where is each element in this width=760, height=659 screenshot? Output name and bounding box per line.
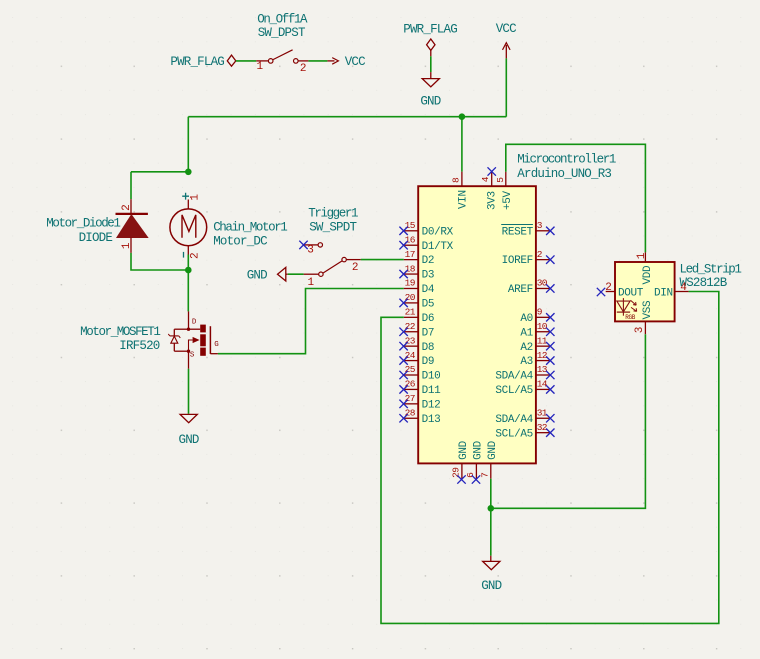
pin 4 DIN — [654, 282, 689, 299]
no-connect pin 30 — [546, 284, 554, 292]
svg-text:GND: GND — [458, 440, 470, 460]
svg-text:A2: A2 — [520, 342, 533, 354]
svg-text:23: 23 — [405, 335, 416, 346]
wire GND node down — [490, 508, 492, 555]
svg-text:D10: D10 — [422, 371, 441, 383]
svg-text:D12: D12 — [422, 399, 441, 411]
pin 30 AREF — [508, 278, 550, 296]
wire +5V to LED VDD — [506, 144, 646, 252]
no-connect pin 29 — [457, 475, 465, 483]
svg-text:GND: GND — [420, 95, 440, 109]
pin 11 A2 — [520, 335, 550, 353]
power flag PWR_FLAG (top) — [403, 23, 457, 57]
svg-text:14: 14 — [537, 379, 548, 390]
svg-text:GND: GND — [487, 440, 499, 460]
svg-text:25: 25 — [405, 364, 416, 375]
svg-text:30: 30 — [537, 278, 548, 289]
svg-text:D5: D5 — [422, 299, 435, 311]
svg-text:2: 2 — [537, 249, 543, 260]
pin 4 3V3 — [480, 172, 498, 210]
svg-text:3V3: 3V3 — [486, 191, 498, 210]
svg-text:2: 2 — [300, 63, 306, 75]
ground GND (bottom) — [481, 556, 501, 593]
svg-text:4: 4 — [680, 282, 687, 294]
svg-text:Trigger1: Trigger1 — [308, 207, 358, 221]
svg-text:3: 3 — [307, 245, 313, 257]
ground GND (MOSFET source) — [179, 414, 199, 446]
switch Trigger1 SW_SPDT — [304, 207, 361, 289]
pin 3 RESET — [501, 220, 550, 238]
svg-text:RGB: RGB — [625, 314, 636, 321]
pin 26 D11 — [404, 379, 441, 397]
svg-text:1: 1 — [256, 61, 263, 73]
pin 24 D9 — [404, 350, 434, 368]
no-connect pin 10 — [546, 328, 554, 336]
wire diode bottom to motor bottom node — [131, 253, 188, 270]
no-connect pin 4 — [488, 167, 496, 175]
no-connect pin 15 — [399, 227, 407, 235]
pin 1 VDD — [636, 252, 654, 284]
svg-text:3: 3 — [634, 327, 646, 333]
svg-text:GND: GND — [179, 433, 199, 447]
wire PWR_FLAG to GND — [430, 56, 432, 72]
svg-text:16: 16 — [405, 234, 416, 245]
pin 3 VSS — [634, 300, 654, 334]
svg-text:On_Off1A: On_Off1A — [257, 13, 308, 27]
svg-text:24: 24 — [405, 350, 416, 361]
svg-text:Motor_DC: Motor_DC — [213, 235, 267, 249]
svg-text:GND: GND — [481, 579, 501, 593]
svg-text:5: 5 — [495, 177, 506, 183]
wire D6 to LED DIN — [381, 292, 719, 624]
svg-text:1: 1 — [121, 242, 133, 249]
transistor Motor_MOSFET1 IRF520 — [80, 311, 219, 359]
switch On_Off1A SW_DPST — [256, 13, 308, 76]
svg-text:PWR_FLAG: PWR_FLAG — [170, 55, 224, 69]
svg-text:29: 29 — [451, 467, 462, 478]
wire node to MOSFET drain — [187, 270, 189, 311]
svg-text:IRF520: IRF520 — [119, 339, 160, 353]
no-connect pin 31 — [546, 414, 554, 422]
no-connect trigger pin 3 — [299, 241, 307, 249]
svg-text:D2: D2 — [422, 255, 435, 267]
svg-text:GND: GND — [247, 269, 267, 283]
svg-text:SDA/A4: SDA/A4 — [495, 414, 533, 426]
pin 14 SCL/A5 — [495, 379, 550, 397]
svg-text:1: 1 — [636, 252, 648, 259]
svg-text:A3: A3 — [520, 356, 533, 368]
ground GND (top) — [420, 72, 440, 109]
junction motor bottom node — [185, 267, 192, 274]
pin 31 SDA/A4 — [495, 407, 550, 425]
svg-text:26: 26 — [405, 379, 416, 390]
wire motor minus to node — [187, 255, 189, 271]
svg-text:11: 11 — [537, 335, 548, 346]
svg-text:SCL/A5: SCL/A5 — [495, 385, 533, 397]
svg-text:15: 15 — [405, 220, 416, 231]
pin 6 GND — [465, 440, 485, 478]
svg-text:Microcontroller1: Microcontroller1 — [517, 153, 616, 167]
no-connect pin 20 — [399, 299, 407, 307]
svg-text:18: 18 — [405, 263, 416, 274]
svg-text:1: 1 — [307, 277, 314, 289]
pin 22 D7 — [404, 321, 434, 339]
svg-text:+5V: +5V — [502, 190, 514, 210]
svg-text:1: 1 — [190, 194, 202, 201]
pin 9 A0 — [520, 307, 550, 325]
svg-text:21: 21 — [405, 307, 416, 318]
pin 8 VIN — [451, 172, 470, 209]
ground GND (trigger) — [247, 267, 288, 282]
svg-text:VCC: VCC — [345, 55, 365, 69]
svg-text:10: 10 — [537, 321, 548, 332]
ground triangle — [180, 414, 197, 422]
LED strip U2 Led_Strip1 WS2812B — [615, 262, 741, 321]
internal RGB LED glyph — [617, 301, 630, 312]
pin 23 D8 — [404, 335, 434, 353]
svg-text:D4: D4 — [422, 284, 435, 296]
svg-text:SW_SPDT: SW_SPDT — [309, 220, 357, 234]
pin 1 (+) — [182, 193, 189, 200]
svg-text:28: 28 — [405, 407, 416, 418]
svg-text:19: 19 — [405, 278, 416, 289]
no-connect pin 32 — [546, 428, 554, 436]
wire GND to trigger pin 1 — [288, 273, 304, 275]
svg-text:2: 2 — [605, 282, 611, 294]
no-connect pin 11 — [546, 342, 554, 350]
no-connect pin 16 — [399, 241, 407, 249]
pin 2 (-) — [183, 252, 185, 258]
svg-text:D13: D13 — [422, 414, 441, 426]
wire D4 to MOSFET gate — [218, 289, 404, 354]
svg-text:PWR_FLAG: PWR_FLAG — [403, 23, 457, 37]
svg-text:D0/RX: D0/RX — [422, 226, 454, 238]
svg-text:Chain_Motor1: Chain_Motor1 — [213, 220, 287, 234]
svg-text:12: 12 — [537, 350, 548, 361]
svg-text:SCL/A5: SCL/A5 — [495, 428, 533, 440]
svg-text:SDA/A4: SDA/A4 — [495, 371, 533, 383]
diode Motor_Diode1 DIODE — [46, 199, 148, 253]
no-connect pin 12 — [546, 356, 554, 364]
svg-text:Motor_Diode1: Motor_Diode1 — [46, 217, 120, 231]
ground triangle — [483, 561, 500, 569]
pin 12 A3 — [520, 350, 550, 368]
svg-text:Arduino_UNO_R3: Arduino_UNO_R3 — [517, 167, 611, 181]
power flag PWR_FLAG (left) — [170, 55, 235, 69]
no-connect pin 14 — [546, 385, 554, 393]
microcontroller U1 Microcontroller1 Arduino_UNO_R3 — [418, 153, 616, 464]
pin 2 IOREF — [502, 249, 551, 267]
source arrow — [189, 340, 193, 351]
svg-text:9: 9 — [537, 307, 543, 318]
pin 28 D13 — [404, 407, 441, 425]
pin 7 GND — [480, 440, 500, 478]
no-connect pin 3 — [546, 227, 554, 235]
svg-text:IOREF: IOREF — [502, 255, 533, 267]
svg-text:D7: D7 — [422, 327, 435, 339]
svg-text:17: 17 — [405, 249, 415, 260]
svg-text:32: 32 — [537, 422, 548, 433]
wire VCC down — [505, 58, 507, 116]
svg-text:RESET: RESET — [502, 226, 534, 238]
pin 5 +5V — [495, 172, 514, 210]
pin 25 D10 — [404, 364, 441, 382]
junction motor top node — [185, 169, 192, 176]
svg-text:22: 22 — [405, 321, 416, 332]
svg-text:D8: D8 — [422, 342, 435, 354]
no-connect pin 2 — [546, 255, 554, 263]
no-connect pin 23 — [399, 342, 407, 350]
wire PWR_FLAG to switch pin 1 — [236, 60, 256, 62]
power symbol VCC (after switch) — [327, 55, 365, 69]
svg-text:D11: D11 — [422, 385, 442, 397]
no-connect pin 25 — [399, 371, 407, 379]
svg-text:DOUT: DOUT — [618, 287, 644, 299]
svg-text:DIN: DIN — [654, 287, 673, 299]
no-connect pin 18 — [399, 270, 407, 278]
pin 15 D0/RX — [404, 220, 454, 238]
svg-text:GND: GND — [473, 440, 485, 460]
svg-text:A0: A0 — [520, 313, 533, 325]
wire to Arduino VIN — [461, 117, 463, 172]
no-connect pin 22 — [399, 328, 407, 336]
no-connect pin 24 — [399, 356, 407, 364]
body diode — [170, 335, 179, 337]
svg-text:A1: A1 — [520, 327, 533, 339]
pin 20 D5 — [404, 292, 434, 310]
power symbol VCC (top) — [496, 22, 516, 58]
pin 21 D6 — [404, 307, 434, 325]
svg-text:27: 27 — [405, 393, 415, 404]
svg-text:2: 2 — [121, 205, 133, 211]
no-connect pin 2 DOUT — [597, 288, 605, 296]
wire down to diode — [130, 172, 132, 199]
svg-text:AREF: AREF — [508, 284, 533, 296]
svg-text:4: 4 — [480, 176, 491, 182]
wire Arduino GND down — [490, 479, 492, 509]
svg-text:31: 31 — [537, 407, 548, 418]
svg-text:DIODE: DIODE — [79, 231, 113, 245]
no-connect pin 27 — [399, 400, 407, 408]
svg-text:8: 8 — [451, 177, 462, 183]
pin 2 DOUT — [605, 282, 643, 299]
gate bar — [209, 326, 211, 354]
svg-text:SW_DPST: SW_DPST — [258, 26, 306, 40]
no-connect pin 9 — [546, 313, 554, 321]
pin 27 D12 — [404, 393, 441, 411]
wire source to GND — [188, 369, 190, 414]
svg-text:13: 13 — [537, 364, 548, 375]
wire main VCC bus — [188, 116, 506, 118]
svg-text:VCC: VCC — [496, 22, 516, 36]
pin 13 SDA/A4 — [495, 364, 550, 382]
svg-text:D1/TX: D1/TX — [422, 241, 454, 253]
svg-text:D6: D6 — [422, 313, 435, 325]
wire switch pin 2 to VCC — [308, 60, 327, 62]
svg-text:Led_Strip1: Led_Strip1 — [680, 262, 742, 276]
svg-text:VSS: VSS — [642, 300, 654, 320]
svg-text:VIN: VIN — [457, 190, 469, 209]
wire GND node to LED VSS — [491, 334, 646, 508]
svg-text:3: 3 — [537, 220, 543, 231]
junction GND node — [488, 505, 495, 512]
svg-text:WS2812B: WS2812B — [680, 276, 728, 290]
wire trigger pin 2 to D2 — [361, 259, 404, 261]
junction VIN tap — [459, 113, 466, 120]
svg-text:2: 2 — [190, 253, 202, 259]
pin 10 A1 — [520, 321, 550, 339]
svg-text:20: 20 — [405, 292, 416, 303]
pin 17 D2 — [404, 249, 434, 267]
svg-text:VDD: VDD — [642, 265, 654, 285]
svg-text:D9: D9 — [422, 356, 435, 368]
pin 18 D3 — [404, 263, 434, 281]
pin 19 D4 — [404, 278, 435, 296]
svg-text:D3: D3 — [422, 270, 435, 282]
wire junction to diode top — [131, 171, 188, 173]
pin 32 SCL/A5 — [495, 422, 550, 440]
no-connect pin 26 — [399, 385, 407, 393]
wire bus down to motor — [187, 117, 189, 172]
pin 16 D1/TX — [404, 234, 454, 252]
svg-text:2: 2 — [352, 262, 358, 274]
channel bars — [200, 325, 206, 333]
ground triangle — [422, 79, 439, 87]
svg-text:Motor_MOSFET1: Motor_MOSFET1 — [80, 325, 160, 339]
motor Chain_Motor1 Motor_DC — [170, 193, 287, 259]
no-connect pin 13 — [546, 371, 554, 379]
pin 29 GND — [451, 440, 471, 478]
no-connect pin 6 — [472, 475, 480, 483]
svg-text:7: 7 — [480, 473, 491, 478]
no-connect pin 28 — [399, 414, 407, 422]
